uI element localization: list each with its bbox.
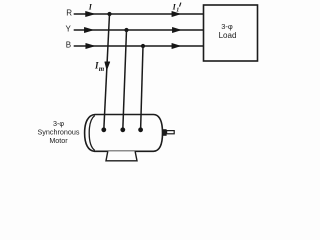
arrow into load on wire Y [173, 28, 181, 33]
wire Y phase (horizontal bus) [74, 29, 204, 31]
label 3-phi Load [219, 22, 237, 40]
svg-text:Load: Load [219, 31, 237, 40]
motor shaft [167, 131, 175, 134]
svg-text:R: R [66, 8, 72, 17]
current arrow Im on vertical tap wire [105, 62, 110, 70]
motor shaft gland block [162, 129, 166, 136]
label I1' (load current) [172, 2, 181, 13]
svg-text:3-φ: 3-φ [221, 22, 233, 31]
motor terminal dot (Y phase) [120, 127, 125, 132]
motor body (3-phase synchronous motor, cylinder) [85, 115, 163, 152]
motor base pedestal [106, 151, 137, 161]
node: junction dot on Y [124, 28, 128, 32]
label Im (motor current) [94, 61, 105, 74]
motor terminal dot (R phase) [101, 127, 106, 132]
wire: vertical tap from B to motor [141, 46, 143, 130]
svg-text:1: 1 [176, 7, 179, 13]
wire: vertical tap from Y to motor [123, 30, 127, 130]
wire: vertical tap from R to motor [104, 14, 110, 130]
svg-text:m: m [99, 65, 105, 73]
current arrow on wire B [86, 44, 94, 49]
arrow into load on wire R [172, 12, 180, 17]
svg-text:Y: Y [66, 25, 72, 34]
node: junction dot on B [141, 44, 145, 48]
svg-text:B: B [66, 41, 71, 50]
motor terminal dot (B phase) [138, 127, 143, 132]
current arrow I on wire R [86, 12, 95, 17]
current arrow on wire Y [85, 28, 93, 33]
wire R phase (horizontal bus) [74, 13, 204, 15]
wire B phase (horizontal bus) [74, 45, 204, 47]
load box (3-phase load) [204, 5, 258, 61]
node: junction dot on R [107, 12, 111, 16]
svg-text:Motor: Motor [49, 136, 68, 145]
label 3-phi Synchronous Motor [38, 119, 80, 145]
arrow into load on wire B [172, 44, 180, 49]
motor left end-cap rim arc [89, 116, 95, 151]
